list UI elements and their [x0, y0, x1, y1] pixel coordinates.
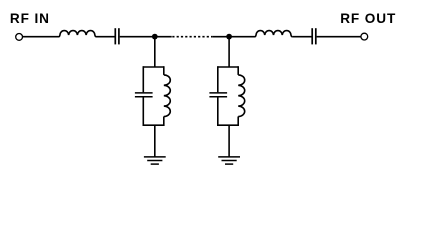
- tank 2 capacitor branch bottom lead: [217, 98, 219, 127]
- shunt capacitor C3 plate 1: [135, 92, 153, 94]
- capacitor C1 (series) plate 2: [118, 28, 120, 44]
- capacitor C1 (series) plate 1: [114, 28, 116, 44]
- wire input terminal to L1: [23, 36, 59, 38]
- ground 2 bar 3: [225, 163, 233, 165]
- dashed wire (omitted sections): [172, 36, 212, 38]
- shunt inductor L3 coil: [164, 75, 170, 117]
- wire node B to L2: [229, 36, 255, 38]
- wire tank 1 to ground: [154, 125, 156, 156]
- wire L1 to C1: [96, 36, 115, 38]
- tank 1 bottom bar: [143, 124, 164, 126]
- wire node A rightward: [155, 36, 172, 38]
- ground 1 bar 1: [144, 156, 166, 158]
- shunt capacitor C4 plate 2: [209, 96, 227, 98]
- input terminal (RF IN port): [16, 34, 23, 41]
- shunt inductor L4 bottom lead: [237, 117, 239, 127]
- tank 2 top bar: [218, 66, 238, 68]
- node A junction dot: [152, 34, 158, 40]
- tank 1 capacitor branch top lead: [142, 66, 144, 92]
- ground 2 bar 2: [222, 160, 237, 162]
- shunt inductor L3 bottom lead: [163, 117, 165, 127]
- wire C1 to node A: [120, 36, 155, 38]
- output terminal (RF OUT port): [361, 33, 368, 40]
- capacitor C2 (series) plate 1: [311, 28, 313, 44]
- tank 2 capacitor branch top lead: [217, 66, 219, 92]
- tank 1 top bar: [143, 66, 164, 68]
- wire C2 to output terminal: [317, 36, 361, 38]
- capacitor C2 (series) plate 2: [315, 28, 317, 44]
- shunt capacitor C4 plate 1: [209, 92, 227, 94]
- ground 1 bar 2: [147, 160, 162, 162]
- shunt inductor L4 top lead: [237, 66, 239, 75]
- tank 2 bottom bar: [218, 124, 238, 126]
- inductor L1 (series): [59, 31, 96, 37]
- shunt inductor L3 top lead: [163, 66, 165, 75]
- svg-text:RF IN: RF IN: [10, 11, 50, 26]
- tank 1 capacitor branch bottom lead: [142, 98, 144, 127]
- ground 2 bar 1: [218, 156, 240, 158]
- shunt capacitor C3 plate 2: [135, 96, 153, 98]
- ground 1 bar 3: [151, 163, 159, 165]
- wire L2 to C2: [292, 36, 311, 38]
- wire into node B: [212, 36, 229, 38]
- inductor L2 (series): [255, 31, 292, 37]
- svg-text:RF OUT: RF OUT: [340, 11, 396, 26]
- node B junction dot: [226, 34, 232, 40]
- shunt inductor L4 coil: [238, 75, 245, 117]
- wire tank 2 to ground: [228, 125, 230, 156]
- wire node A down to tank 1: [154, 37, 156, 67]
- wire node B down to tank 2: [228, 37, 230, 67]
